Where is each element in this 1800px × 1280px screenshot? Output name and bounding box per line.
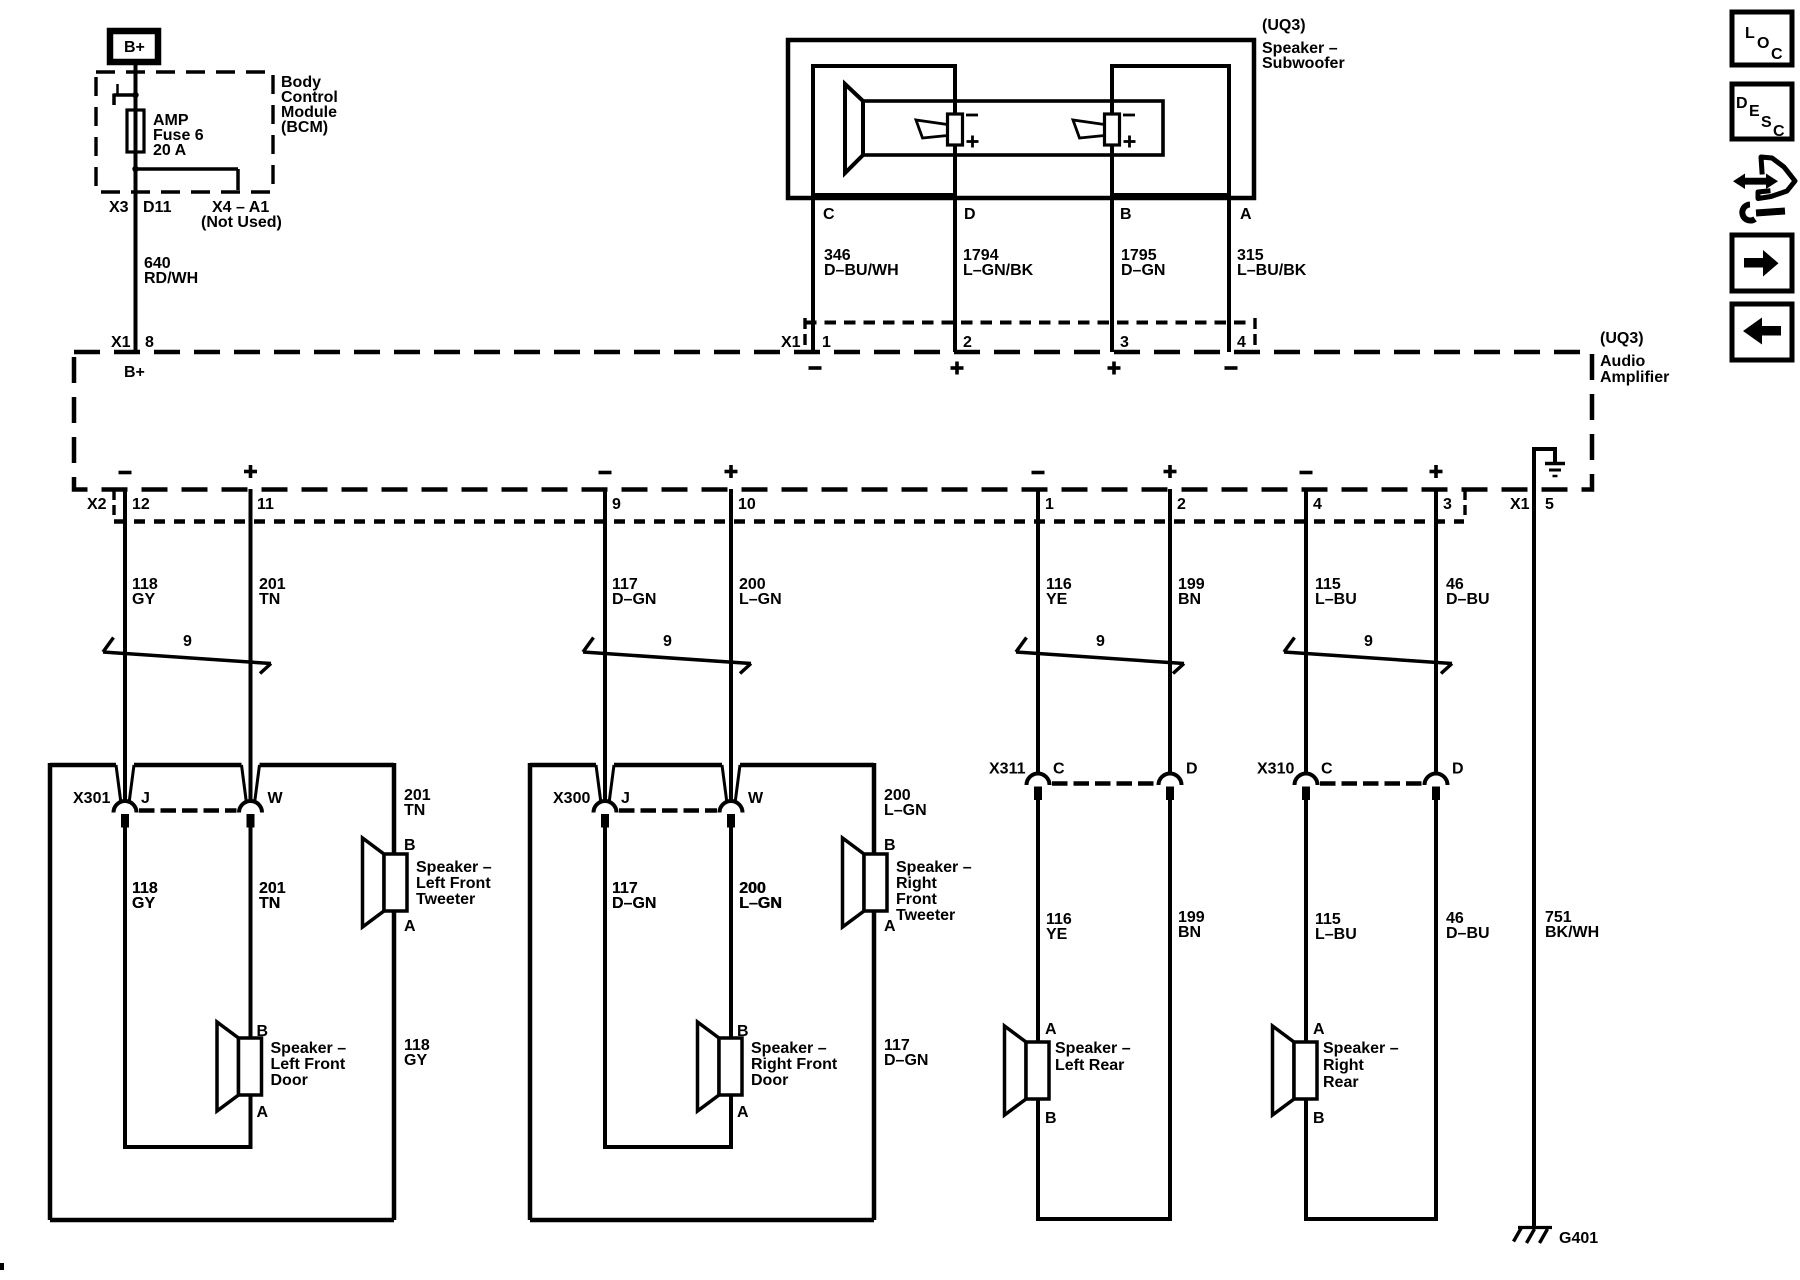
nav icon schematic (double arrow + wrench): [1733, 157, 1795, 220]
svg-text:A: A: [737, 1104, 749, 1121]
nav icon LOC: [1732, 12, 1792, 65]
svg-text:GY: GY: [132, 591, 155, 608]
svg-text:Left Front: Left Front: [271, 1056, 346, 1073]
svg-text:1: 1: [822, 334, 831, 351]
svg-text:TN: TN: [404, 802, 425, 819]
svg-text:L–GN: L–GN: [884, 802, 927, 819]
svg-text:L–GN/BK: L–GN/BK: [963, 262, 1034, 279]
svg-text:X1: X1: [1510, 496, 1530, 513]
svg-text:9: 9: [183, 633, 192, 650]
svg-text:Rear: Rear: [1323, 1074, 1359, 1091]
svg-text:(UQ3): (UQ3): [1262, 17, 1306, 34]
svg-text:X1: X1: [781, 334, 801, 351]
svg-text:Speaker –: Speaker –: [751, 1040, 827, 1057]
svg-text:B: B: [1313, 1110, 1325, 1127]
svg-text:L–BU: L–BU: [1315, 591, 1357, 608]
svg-text:D–GN: D–GN: [612, 591, 656, 608]
svg-text:Front: Front: [896, 891, 938, 908]
svg-text:GY: GY: [132, 895, 155, 912]
subwoofer inner enclosure left: [813, 66, 955, 195]
connector X300 terminal W: [720, 801, 743, 828]
svg-text:YE: YE: [1046, 926, 1068, 943]
svg-text:X310: X310: [1257, 761, 1294, 778]
svg-text:B: B: [257, 1023, 269, 1040]
svg-text:G401: G401: [1559, 1230, 1598, 1247]
X2 pin 4 polarity: [1300, 471, 1313, 475]
wire 640 B+ feed vertical: [134, 62, 138, 352]
svg-text:Right: Right: [1323, 1057, 1365, 1074]
svg-text:BN: BN: [1178, 924, 1201, 941]
svg-text:B: B: [1045, 1110, 1057, 1127]
svg-text:Speaker –: Speaker –: [1323, 1040, 1399, 1057]
svg-text:L–GN: L–GN: [740, 895, 783, 912]
svg-text:BN: BN: [1178, 591, 1201, 608]
svg-text:20 A: 20 A: [153, 142, 187, 159]
ground G401 chassis symbol: [1518, 1226, 1552, 1229]
svg-text:Right Front: Right Front: [751, 1056, 838, 1073]
connector X301 funnel W: [242, 765, 247, 801]
speaker subwoofer outer box: [788, 40, 1254, 198]
shield symbol 9: [1016, 638, 1184, 674]
svg-text:L–BU: L–BU: [1315, 926, 1357, 943]
connector X300 funnel J: [596, 765, 601, 801]
audio amplifier dashed box: [74, 352, 1592, 490]
shield symbol 9: [583, 638, 751, 674]
svg-text:L–BU/BK: L–BU/BK: [1237, 262, 1307, 279]
speaker front door: [217, 1022, 262, 1111]
svg-text:B: B: [737, 1023, 749, 1040]
X2 pin 3 polarity: [1430, 470, 1443, 474]
svg-text:C: C: [1771, 46, 1783, 63]
svg-text:D–BU/WH: D–BU/WH: [824, 262, 899, 279]
svg-text:Amplifier: Amplifier: [1600, 369, 1669, 386]
subwoofer inner enclosure right: [1112, 66, 1229, 195]
svg-text:J: J: [141, 790, 150, 807]
svg-text:E: E: [1749, 103, 1760, 120]
fuse AMP Fuse 6 20 A: [127, 110, 144, 152]
svg-text:A: A: [404, 918, 416, 935]
svg-text:Left Rear: Left Rear: [1055, 1057, 1124, 1074]
speaker box X301 outline: [50, 763, 116, 768]
svg-text:RD/WH: RD/WH: [144, 270, 198, 287]
power symbol B+: [110, 31, 158, 62]
X2 pin 9 polarity: [599, 471, 612, 475]
connector X310 terminal D: [1425, 774, 1448, 801]
svg-text:2: 2: [1177, 496, 1186, 513]
rear speaker: [1273, 1026, 1318, 1115]
connector X311 dashed body: [1052, 781, 1156, 786]
svg-text:B: B: [884, 837, 896, 854]
driver 1 polarity marks: [966, 114, 978, 117]
svg-text:9: 9: [1096, 633, 1105, 650]
svg-text:Speaker –: Speaker –: [271, 1040, 347, 1057]
svg-text:YE: YE: [1046, 591, 1068, 608]
amplifier connector X1 (subwoofer side): [805, 321, 1255, 325]
wire 751 BK/WH (ground): [1532, 489, 1536, 1228]
svg-text:B+: B+: [124, 39, 145, 56]
svg-text:W: W: [748, 790, 764, 807]
subwoofer amp pin polarity: [809, 366, 822, 370]
svg-text:Tweeter: Tweeter: [896, 907, 955, 924]
svg-text:9: 9: [612, 496, 621, 513]
BCM dashed box: [96, 72, 273, 192]
wire to X311 speaker: [1036, 789, 1040, 1042]
svg-text:3: 3: [1120, 334, 1129, 351]
svg-text:C: C: [1053, 761, 1065, 778]
svg-text:X2: X2: [87, 496, 107, 513]
svg-text:Subwoofer: Subwoofer: [1262, 55, 1345, 72]
connector X2 dotted body: [114, 519, 1464, 523]
connector X301 terminal J: [114, 801, 137, 828]
speaker front tweeter: [363, 838, 408, 927]
nav icon DESC: [1732, 84, 1792, 139]
X2 pin 10 polarity: [725, 470, 738, 474]
svg-text:A: A: [1240, 206, 1252, 223]
svg-text:(Not Used): (Not Used): [201, 214, 282, 231]
wire 199 BN (pin 2): [1168, 489, 1172, 774]
svg-text:A: A: [884, 918, 896, 935]
svg-text:X301: X301: [73, 790, 110, 807]
svg-text:Speaker –: Speaker –: [896, 859, 972, 876]
svg-text:X300: X300: [553, 790, 590, 807]
nav icon back arrow: [1732, 304, 1792, 360]
svg-text:5: 5: [1545, 496, 1554, 513]
svg-text:X1: X1: [111, 334, 131, 351]
svg-text:2: 2: [963, 334, 972, 351]
connector X311 terminal D: [1159, 774, 1182, 801]
amplifier internal ground symbol: [1545, 462, 1565, 466]
svg-text:Door: Door: [271, 1072, 308, 1089]
svg-text:D: D: [964, 206, 976, 223]
svg-text:A: A: [1313, 1021, 1325, 1038]
svg-text:GY: GY: [404, 1052, 427, 1069]
wire 200 L-GN (pin 10): [729, 489, 733, 802]
svg-text:D: D: [1452, 761, 1464, 778]
connector X300 terminal J: [594, 801, 617, 828]
wire 117 D&#8211;GN inside box: [603, 816, 607, 1147]
rear speaker: [1005, 1026, 1050, 1115]
X2 pin 2 polarity: [1164, 470, 1177, 474]
page corner mark: [0, 1263, 4, 1270]
svg-text:D: D: [1186, 761, 1198, 778]
wire 115 L-BU (pin 4): [1304, 489, 1308, 774]
subwoofer big cone: [845, 84, 863, 173]
svg-text:12: 12: [132, 496, 150, 513]
connector X301 dashed body: [139, 808, 237, 813]
X2 pin 12 polarity: [119, 471, 132, 475]
svg-text:Left Front: Left Front: [416, 875, 491, 892]
svg-text:L: L: [1745, 25, 1755, 42]
svg-text:B: B: [1120, 206, 1132, 223]
BCM B+ terminal hook: [114, 93, 136, 97]
wire B 1795: [1110, 66, 1114, 352]
svg-text:3: 3: [1443, 496, 1452, 513]
wire 117 D-GN (pin 9): [603, 489, 607, 802]
connector X300 dashed body: [619, 808, 717, 813]
subwoofer driver 1: [916, 114, 963, 145]
svg-text:(UQ3): (UQ3): [1600, 330, 1644, 347]
wire branch to X4-A1 (not used): [136, 167, 239, 171]
wire 201 TN inside box: [249, 816, 253, 1038]
subwoofer body bar: [863, 101, 1163, 155]
svg-text:4: 4: [1313, 496, 1322, 513]
X2 pin 1 polarity: [1032, 471, 1045, 475]
svg-text:1: 1: [1045, 496, 1054, 513]
svg-text:A: A: [257, 1104, 269, 1121]
rear speaker return loop: [1304, 1099, 1308, 1219]
svg-text:B: B: [404, 837, 416, 854]
svg-text:9: 9: [663, 633, 672, 650]
svg-text:8: 8: [145, 334, 154, 351]
wire door speaker return: [729, 1094, 733, 1147]
rear speaker return loop: [1036, 1099, 1040, 1219]
wire door speaker return: [249, 1094, 253, 1147]
svg-text:D: D: [1736, 95, 1748, 112]
junction to X4-A1 branch: [132, 166, 138, 172]
wire 200 L&#8211;GN inside box: [729, 816, 733, 1038]
svg-text:Tweeter: Tweeter: [416, 891, 475, 908]
connector X310 dashed body: [1320, 781, 1422, 786]
shield symbol 9: [103, 638, 271, 674]
svg-text:Speaker –: Speaker –: [416, 859, 492, 876]
svg-text:Door: Door: [751, 1072, 788, 1089]
svg-text:BK/WH: BK/WH: [1545, 924, 1599, 941]
svg-text:Audio: Audio: [1600, 353, 1646, 370]
wire C 346: [811, 66, 815, 352]
svg-text:4: 4: [1237, 334, 1246, 351]
connector X301 terminal W: [239, 801, 262, 828]
driver 2 polarity marks: [1123, 114, 1135, 117]
wire 46 D-BU (pin 3): [1434, 489, 1438, 774]
svg-text:D11: D11: [143, 199, 172, 216]
svg-text:C: C: [823, 206, 835, 223]
svg-text:(BCM): (BCM): [281, 119, 328, 136]
svg-text:B+: B+: [124, 364, 145, 381]
svg-text:10: 10: [738, 496, 756, 513]
wire D 1794: [953, 66, 957, 352]
wire 118 GY (pin 12): [123, 489, 127, 802]
ground wire inside amplifier: [1534, 449, 1555, 489]
svg-text:TN: TN: [259, 591, 280, 608]
svg-text:TN: TN: [259, 895, 280, 912]
svg-text:L–GN: L–GN: [739, 591, 782, 608]
svg-text:C: C: [1773, 123, 1785, 140]
wire A 315: [1227, 66, 1231, 352]
wire 116 YE (pin 1): [1036, 489, 1040, 774]
svg-text:X3: X3: [109, 199, 129, 216]
svg-text:O: O: [1757, 35, 1769, 52]
svg-text:W: W: [268, 790, 284, 807]
connector X301 funnel J: [116, 765, 121, 801]
svg-text:J: J: [621, 790, 630, 807]
shield symbol 9: [1284, 638, 1452, 674]
svg-text:D–BU: D–BU: [1446, 925, 1490, 942]
subwoofer driver 2: [1073, 114, 1120, 145]
svg-text:D–GN: D–GN: [612, 895, 656, 912]
svg-text:S: S: [1761, 114, 1772, 131]
svg-text:C: C: [1321, 761, 1333, 778]
svg-text:D–GN: D–GN: [884, 1052, 928, 1069]
svg-text:9: 9: [1364, 633, 1373, 650]
svg-text:X311: X311: [989, 761, 1026, 778]
svg-text:D–BU: D–BU: [1446, 591, 1490, 608]
connector X310 terminal C: [1295, 774, 1318, 801]
wire 118 GY inside box: [123, 816, 127, 1147]
X2 pin 11 polarity: [244, 470, 257, 474]
speaker front tweeter: [843, 838, 888, 927]
wire 201 TN (pin 11): [249, 489, 253, 802]
nav icon forward arrow: [1732, 235, 1792, 291]
speaker front door: [698, 1022, 743, 1111]
connector X311 terminal C: [1027, 774, 1050, 801]
speaker box X300 outline: [530, 763, 596, 768]
svg-text:D–GN: D–GN: [1121, 262, 1165, 279]
svg-text:Right: Right: [896, 875, 938, 892]
svg-text:A: A: [1045, 1021, 1057, 1038]
svg-text:Speaker –: Speaker –: [1055, 1040, 1131, 1057]
wire to X310 speaker: [1304, 789, 1308, 1042]
connector X300 funnel W: [722, 765, 727, 801]
svg-text:11: 11: [257, 496, 274, 513]
